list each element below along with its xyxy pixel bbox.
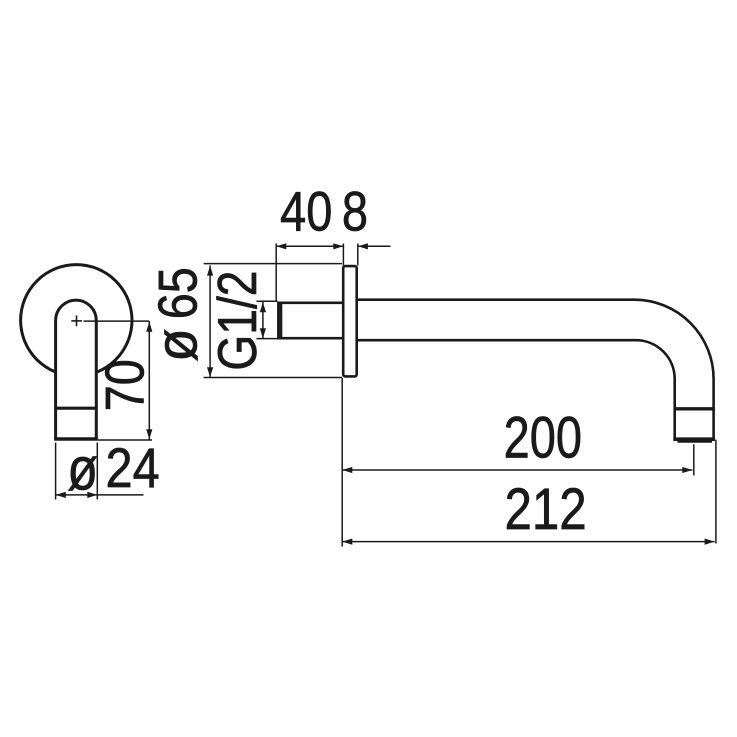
svg-text:ø: ø (144, 328, 209, 362)
svg-text:G1/2: G1/2 (206, 271, 268, 371)
svg-text:40: 40 (280, 180, 332, 243)
svg-text:212: 212 (504, 477, 586, 542)
svg-text:24: 24 (106, 437, 160, 500)
svg-text:70: 70 (94, 359, 155, 411)
svg-text:8: 8 (342, 180, 368, 243)
svg-text:65: 65 (147, 267, 208, 319)
svg-text:ø: ø (67, 435, 98, 502)
svg-text:200: 200 (504, 406, 582, 471)
